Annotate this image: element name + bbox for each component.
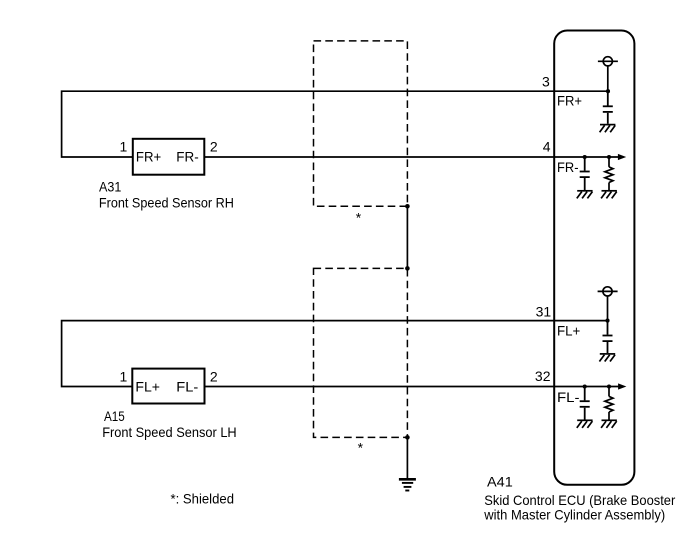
chassis ground (under R2) — [601, 420, 617, 428]
svg-text:FL+: FL+ — [135, 379, 160, 395]
junction dot pin 3 — [606, 89, 610, 93]
svg-text:*: Shielded: *: Shielded — [171, 490, 235, 506]
wire shield to ground — [406, 437, 408, 478]
svg-text:Front Speed Sensor RH: Front Speed Sensor RH — [99, 194, 234, 210]
svg-text:*: * — [356, 209, 362, 225]
svg-text:2: 2 — [210, 369, 218, 385]
junction dot pin 31 — [605, 319, 609, 323]
wire FR+ (sensor A31 pin 1 loop to ECU pin 3) — [62, 91, 608, 157]
earth ground (shield) — [399, 479, 416, 490]
wire FL+ (sensor A15 pin 1 loop to ECU pin 31) — [62, 321, 608, 387]
svg-text:A15: A15 — [104, 408, 125, 424]
capacitor C3 (FL+ filter) — [603, 321, 613, 353]
resistor R1 (FR- pulldown) — [605, 157, 613, 190]
svg-text:FR-: FR- — [557, 159, 579, 175]
junction dot pin 4 branch 2 — [607, 155, 611, 159]
svg-text:FL+: FL+ — [557, 323, 580, 339]
wire FR- (sensor A31 pin 2 to ECU pin 4) — [204, 156, 618, 158]
connector box A31 — [133, 139, 205, 175]
svg-text:FL-: FL- — [176, 379, 198, 395]
junction dot pin 32 branch 1 — [583, 384, 587, 388]
svg-text:1: 1 — [120, 369, 128, 385]
svg-text:32: 32 — [535, 368, 551, 384]
svg-text:4: 4 — [543, 139, 551, 155]
svg-text:Front Speed Sensor LH: Front Speed Sensor LH — [102, 424, 237, 440]
wire FL- (sensor A15 pin 2 to ECU pin 32) — [205, 386, 619, 388]
junction dot shield 3 — [405, 435, 410, 440]
chassis ground (under C4) — [577, 420, 593, 428]
wire shield link (between shield boxes) — [406, 206, 408, 268]
junction dot shield 1 — [405, 204, 410, 209]
svg-text:A31: A31 — [99, 178, 121, 194]
chassis ground (under R1) — [601, 191, 617, 199]
arrowhead on FR- line inside ECU — [618, 154, 626, 160]
svg-text:A41: A41 — [487, 473, 513, 489]
svg-text:FL-: FL- — [557, 389, 580, 405]
ECU box A41 — [554, 31, 634, 485]
junction dot pin 32 branch 2 — [607, 384, 611, 388]
capacitor C2 (FR- filter) — [580, 157, 590, 190]
svg-text:3: 3 — [542, 74, 550, 90]
terminal circle symbol (FR+ supply) — [598, 57, 618, 91]
terminal circle symbol (FL+ supply) — [598, 287, 618, 321]
chassis ground (under C3) — [599, 354, 615, 362]
shield box (dashed) around FL wires — [314, 268, 408, 437]
svg-text:31: 31 — [536, 304, 552, 320]
svg-text:*: * — [358, 439, 364, 455]
shield box (dashed) around FR wires — [314, 41, 408, 206]
capacitor C1 (FR+ filter) — [603, 91, 613, 124]
svg-text:2: 2 — [210, 139, 218, 155]
svg-text:FR+: FR+ — [557, 93, 582, 109]
capacitor C4 (FL- filter) — [580, 387, 590, 420]
junction dot pin 4 branch 1 — [583, 155, 587, 159]
arrowhead on FL- line inside ECU — [618, 383, 626, 389]
resistor R2 (FL- pulldown) — [605, 387, 613, 420]
connector box A15 — [132, 369, 204, 404]
svg-text:FR-: FR- — [176, 149, 199, 165]
junction dot shield 2 — [405, 266, 410, 271]
svg-text:with Master Cylinder Assembly): with Master Cylinder Assembly) — [483, 506, 665, 522]
chassis ground (under C2) — [577, 191, 593, 199]
svg-text:FR+: FR+ — [136, 149, 161, 165]
chassis ground (under C1) — [600, 125, 616, 133]
svg-text:1: 1 — [120, 139, 128, 155]
